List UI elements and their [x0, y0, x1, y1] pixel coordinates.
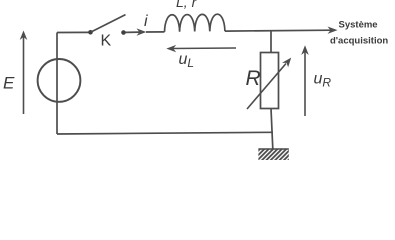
- arrowhead to acquisition system: [328, 27, 338, 34]
- svg-text:R: R: [246, 67, 261, 90]
- switch K right contact dot: [121, 30, 126, 35]
- inductor L,r coil: [165, 14, 225, 32]
- arrow E: [20, 31, 28, 115]
- ground symbol (hatched earth): [258, 149, 288, 160]
- switch K left contact dot: [88, 30, 93, 35]
- svg-text:uL: uL: [179, 51, 195, 70]
- wire bottom horizontal: [57, 132, 273, 134]
- svg-text:uR: uR: [314, 71, 332, 90]
- wire inductor to acquisition arrow: [225, 29, 331, 32]
- variable resistor arrow: [247, 58, 291, 109]
- resistor R body: [261, 53, 279, 109]
- svg-text:E: E: [3, 74, 15, 93]
- wire arrow-to-inductor: [146, 31, 165, 33]
- current arrow i: [126, 28, 147, 35]
- svg-text:Système: Système: [339, 20, 378, 31]
- svg-text:K: K: [101, 33, 112, 50]
- arrow u_R: [301, 45, 309, 116]
- wire junction to resistor top: [270, 31, 272, 53]
- wire top-left horizontal (source to switch): [57, 31, 89, 33]
- arrow u_L: [166, 45, 236, 52]
- wire left vertical: [56, 33, 58, 135]
- svg-text:L, r: L, r: [176, 0, 198, 10]
- switch K blade: [91, 15, 126, 32]
- svg-text:i: i: [144, 13, 148, 30]
- svg-text:d'acquisition: d'acquisition: [330, 36, 388, 47]
- wire resistor bottom to ground: [271, 109, 273, 149]
- source E circle: [38, 59, 81, 102]
